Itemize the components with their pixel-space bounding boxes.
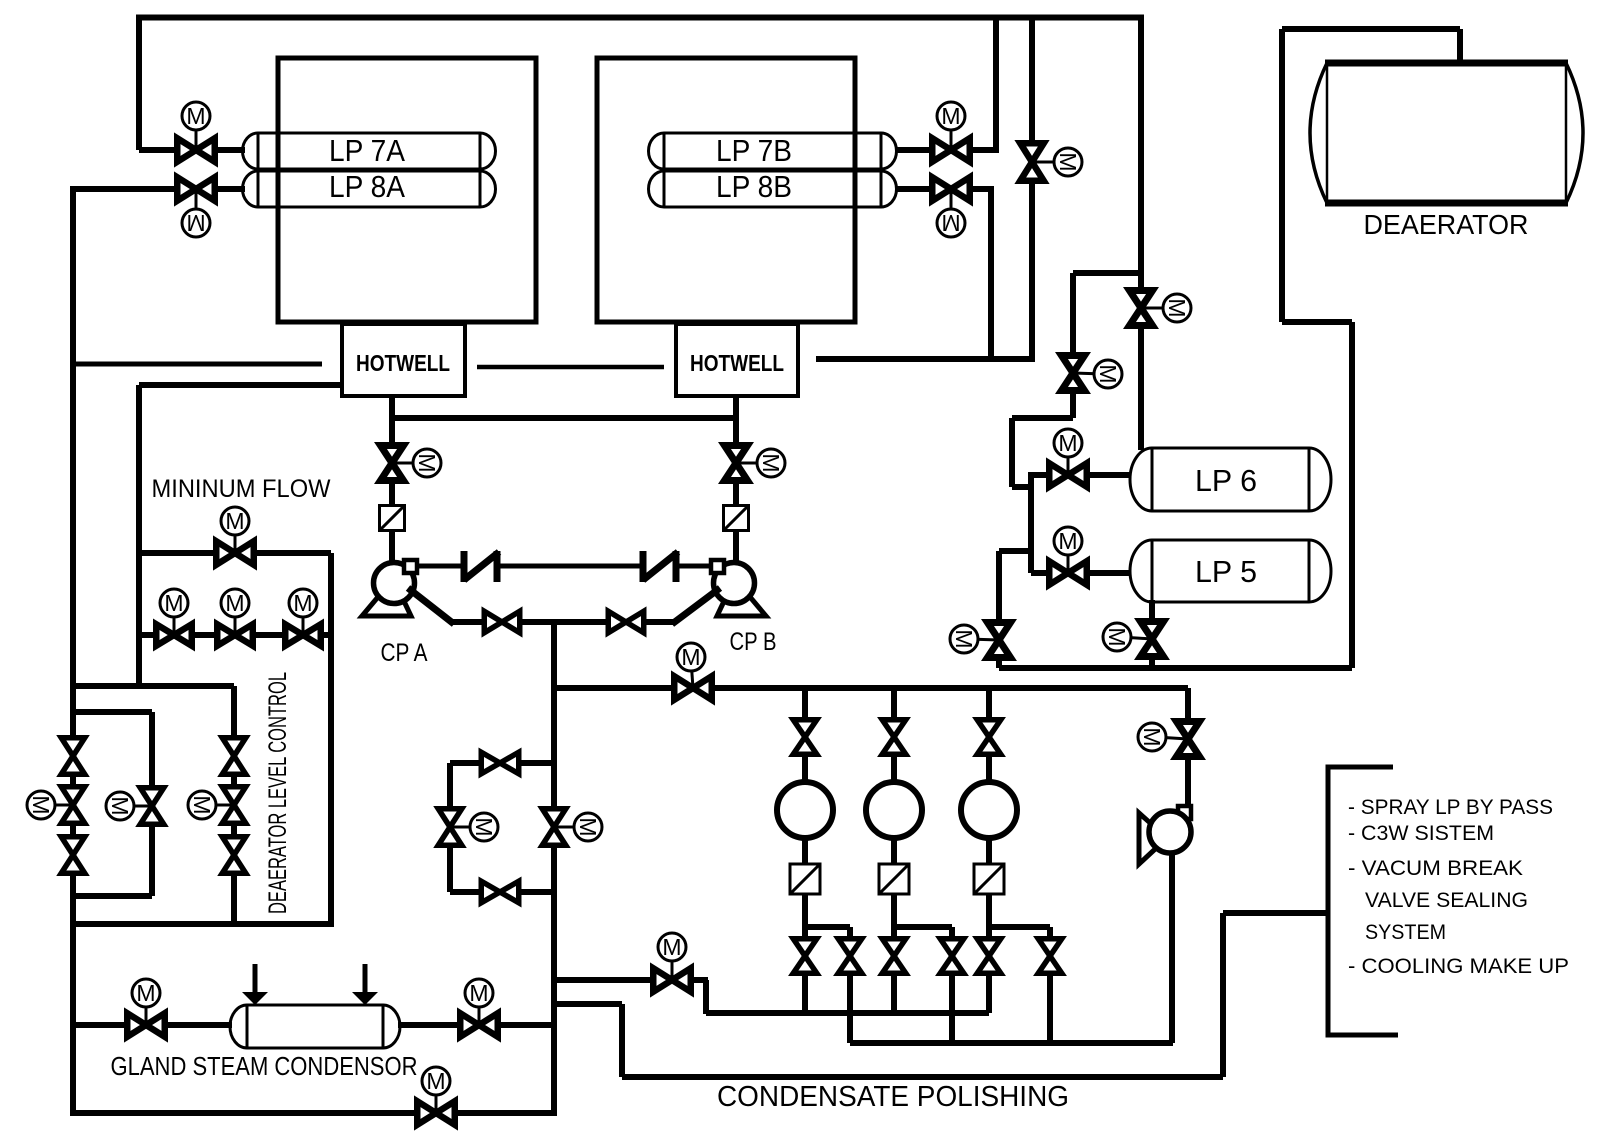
valve stack3 top [222, 738, 246, 775]
vessel LP 8A [242, 171, 495, 207]
svg-text:LP 8B: LP 8B [716, 169, 792, 204]
valve discharge B [608, 611, 644, 633]
wire drop x999 [996, 551, 1002, 668]
valve train 3 outlet left [977, 939, 1001, 974]
wire train 3 pair jog [989, 924, 1050, 930]
condenser B box [597, 58, 855, 322]
wire hotwell B drop [733, 396, 739, 566]
wire LP5 valve left stub [1031, 570, 1048, 576]
deaerator vessel [1310, 63, 1583, 203]
svg-text:M: M [469, 980, 488, 1006]
wire LP5 valve right stub [1088, 570, 1131, 576]
pump CP A discharge notch [404, 560, 417, 573]
svg-text:M: M [1055, 152, 1081, 171]
wire left main downcomer x73 [70, 186, 76, 1116]
svg-text:GLAND STEAM CONDENSOR: GLAND STEAM CONDENSOR [111, 1051, 418, 1081]
wire loop bottom y896 [73, 893, 152, 899]
wire train 3 below strainer [986, 893, 992, 957]
motor M gland outlet valve [478, 993, 481, 1025]
svg-text:M: M [941, 210, 960, 236]
wire left line y364 [73, 362, 322, 367]
pump CP A base [362, 591, 411, 616]
motor M y980 valve [671, 950, 674, 980]
wire train 2 below strainer [891, 893, 897, 957]
wire min flow line y553 [139, 550, 331, 556]
valve stack3 mid [222, 787, 246, 824]
wire deaerator inlet x1460 [1457, 29, 1463, 66]
vessel LP 7B [648, 133, 896, 169]
motor M stack3 [206, 804, 234, 807]
wire top header [136, 15, 1144, 21]
pump CP B body [714, 563, 755, 604]
motor M x1141 valve [1141, 307, 1173, 310]
valve hotwell A drop [381, 446, 404, 481]
wire jog y418 [1012, 415, 1073, 421]
svg-text:LP 7B: LP 7B [716, 133, 792, 168]
svg-text:DEAERATOR LEVEL CONTROL: DEAERATOR LEVEL CONTROL [264, 672, 292, 914]
wire bypass left x450 [447, 763, 453, 892]
wire enclosure jog y322 [1282, 319, 1352, 325]
motor M LP5 drain valve [1121, 637, 1152, 639]
valve booster inlet [1177, 722, 1200, 757]
valve LP8A inlet [177, 177, 215, 201]
vessel LP 8B [648, 171, 896, 207]
svg-text:- C3W SISTEM: - C3W SISTEM [1348, 822, 1494, 845]
filter vessel circle train 1 [777, 782, 833, 838]
valve bottom line [417, 1101, 455, 1125]
strainer train 1 [790, 864, 820, 894]
pump CP A body [374, 563, 415, 604]
wire train 1 right branch drop [847, 927, 853, 957]
wire polishing supply drop x622 [619, 1004, 625, 1077]
valve row y635 #2 [217, 624, 253, 646]
wire train 1 left tail [802, 974, 808, 1016]
valve LP5 inlet [1049, 561, 1087, 585]
svg-text:M: M [471, 817, 497, 836]
wire jog y487 [1012, 484, 1031, 490]
svg-text:M: M [951, 629, 977, 648]
motor M of min flow valve [234, 521, 237, 553]
motor M x1073 valve [1073, 373, 1104, 374]
wire train 2 right branch drop [949, 927, 955, 957]
wire downcomer x1032 from top header [1029, 15, 1035, 358]
svg-text:M: M [186, 103, 205, 129]
wire bottom line y1113 [73, 1110, 554, 1116]
valve on x1032 line [1020, 143, 1044, 181]
wire drain header y668 [999, 665, 1352, 671]
wire downcomer x991 to hotwell B line [988, 189, 994, 358]
svg-text:SYSTEM: SYSTEM [1365, 921, 1446, 944]
wire manifold col3 x234 [231, 686, 237, 927]
valve row y635 #3 [285, 624, 321, 646]
svg-text:HOTWELL: HOTWELL [690, 350, 784, 376]
wire LP7B valve right stub [973, 147, 999, 153]
break symbol 1 on crossover [461, 551, 468, 582]
wire booster drop x1188 [1185, 688, 1191, 718]
filter vessel circle train 3 [961, 782, 1017, 838]
wire gland outlet stub [398, 1022, 459, 1028]
wire left riser to LP7A valve [136, 15, 142, 150]
svg-text:- COOLING MAKE UP: - COOLING MAKE UP [1348, 955, 1569, 978]
valve train 2 outlet right [940, 939, 964, 974]
wire LP6 valve left stub [1031, 472, 1048, 478]
wire train 1 to filter [802, 755, 808, 783]
svg-text:CP A: CP A [381, 639, 428, 667]
wire crossover y566 seg3 [679, 564, 709, 569]
wire triple valve line y635 [139, 632, 331, 638]
wire branch y688 [554, 685, 1188, 691]
motor M bottom valve [435, 1081, 438, 1113]
wire train 2 drop [891, 688, 897, 718]
motor M of LP7A inlet valve [195, 116, 198, 150]
pump CP B suction notch [711, 560, 724, 573]
wire loop col x152 [149, 712, 155, 896]
wire polishing riser x1223 [1220, 913, 1226, 1077]
valve train 2 top [882, 720, 906, 755]
wire train 1 below strainer [802, 893, 808, 957]
svg-text:M: M [1058, 528, 1077, 554]
wire train 1 drop [802, 688, 808, 718]
motor M loop valve [124, 805, 152, 808]
svg-text:M: M [225, 508, 244, 534]
svg-text:MININUM FLOW: MININUM FLOW [152, 475, 331, 503]
condenser A box [278, 58, 536, 322]
valve LP5 drain [1141, 622, 1164, 657]
wire LP8A valve left stub [70, 186, 175, 192]
wire train 1 right tail [847, 974, 853, 1043]
svg-text:M: M [1058, 430, 1077, 456]
gland steam condenser vessel [230, 1005, 400, 1048]
wire x1073 top link [1073, 270, 1141, 276]
wire enclosure riser x1352 [1349, 322, 1355, 668]
wire LP8B valve left stub [897, 186, 929, 192]
valve x999 drain [988, 623, 1011, 658]
svg-text:M: M [189, 795, 215, 814]
wire left riser x139 mid [136, 385, 142, 689]
arrow into gland 2 [363, 964, 368, 994]
wire gland line left [73, 1022, 126, 1028]
wire crossover y566 seg1 [418, 564, 461, 569]
wire LP7A valve left stub [139, 147, 175, 153]
svg-text:M: M [1095, 364, 1121, 383]
valve LP8B outlet [932, 177, 970, 201]
annotation bracket [1328, 767, 1398, 1035]
wire CP A discharge diagonal [408, 588, 454, 624]
valve y980 [653, 968, 691, 992]
valve gland inlet [127, 1013, 165, 1037]
hotwell B box [676, 324, 798, 396]
svg-text:M: M [1164, 298, 1190, 317]
wire train 3 right tail [1047, 974, 1053, 1043]
wire LP6 valve right stub [1088, 472, 1131, 478]
svg-text:M: M [681, 644, 700, 670]
svg-text:CP B: CP B [730, 628, 777, 656]
wire hotwell B side line y358 [816, 356, 1035, 362]
vessel LP 7A [242, 133, 495, 169]
valve x1141 [1130, 291, 1153, 326]
valve row y635 #1 [156, 624, 192, 646]
motor M bypass left valve [450, 826, 480, 829]
wire enclosure riser x1282 [1279, 29, 1285, 322]
wire train 2 below filter [891, 838, 897, 866]
wire manifold top y686 [73, 683, 234, 689]
valve branch y688 [674, 676, 712, 700]
svg-text:M: M [575, 817, 601, 836]
wire between hotwells [477, 365, 664, 370]
svg-text:M: M [293, 590, 312, 616]
wire min flow right drop x331 [328, 553, 334, 927]
wire gland inlet stub [166, 1022, 232, 1028]
svg-text:M: M [941, 103, 960, 129]
valve stack1 bottom [61, 837, 85, 874]
valve discharge A [484, 611, 520, 633]
wire manifold bottom y924 [70, 921, 331, 927]
wire loop top y712 [73, 709, 152, 715]
valve train 1 top [793, 720, 817, 755]
wire train 3 drop [986, 688, 992, 718]
valve LP7B outlet [932, 138, 970, 162]
svg-text:LP 6: LP 6 [1195, 463, 1257, 498]
pump CP B base [717, 591, 766, 616]
wire LP8A valve right stub [217, 186, 245, 192]
svg-text:LP 5: LP 5 [1195, 554, 1257, 589]
arrow into gland 1 [253, 964, 258, 994]
motor M of hotwell B drop valve [736, 462, 768, 465]
wire CP B discharge diagonal [672, 588, 720, 624]
motor M stack1 [45, 804, 73, 807]
valve train 1 outlet right [838, 939, 862, 974]
wire train 2 to filter [891, 755, 897, 783]
wire left line y385 [139, 382, 342, 388]
motor M of hotwell A drop valve [392, 462, 424, 465]
svg-text:DEAERATOR: DEAERATOR [1364, 209, 1529, 240]
wire bypass top y763 [450, 760, 554, 766]
wire return riser x706 [703, 980, 709, 1014]
wire train 2 pair jog [894, 924, 952, 930]
wire LP5 drain drop [1149, 600, 1155, 668]
valve LP6 inlet [1049, 463, 1087, 487]
valve stack1 mid [61, 787, 85, 824]
wire train 2 right tail [949, 974, 955, 1043]
wire crossover y566 seg2 [500, 564, 641, 569]
valve LP7A inlet [177, 138, 215, 162]
wire deaerator feed riser x1141 [1138, 15, 1144, 450]
wire main downcomer x554 [551, 622, 557, 1116]
svg-text:VALVE SEALING: VALVE SEALING [1365, 889, 1528, 912]
svg-text:M: M [136, 980, 155, 1006]
motor M of x1032 valve [1032, 161, 1066, 164]
svg-text:M: M [758, 453, 784, 472]
strainer hotwell B [724, 506, 749, 531]
wire train 3 right branch drop [1047, 927, 1053, 957]
svg-text:M: M [225, 590, 244, 616]
motor M row valve 2 [234, 604, 237, 635]
motor M booster inlet valve [1156, 737, 1188, 739]
valve loop x152 [140, 788, 164, 825]
valve x1073 [1062, 356, 1085, 391]
wire train 1 below filter [802, 838, 808, 866]
wire train 3 to filter [986, 755, 992, 783]
svg-text:LP 7A: LP 7A [329, 133, 405, 168]
motor M of LP7B outlet valve [950, 116, 953, 150]
motor M main line valve [554, 826, 584, 829]
wire hotwell A drop [389, 396, 395, 566]
valve min flow [216, 541, 254, 565]
label DEAERATOR LEVEL CONTROL [264, 672, 292, 914]
valve train 2 outlet left [882, 939, 906, 974]
wire bypass bottom y892 [450, 889, 554, 895]
svg-text:CONDENSATE POLISHING: CONDENSATE POLISHING [717, 1081, 1069, 1113]
motor M x999 valve [968, 639, 999, 640]
booster pump notch [1178, 806, 1191, 819]
booster pump horn [1139, 813, 1167, 864]
wire return line y1013 [706, 1010, 989, 1016]
valve train 3 top [977, 720, 1001, 755]
valve bypass left [438, 809, 462, 846]
motor M LP6 valve [1067, 446, 1070, 475]
valve hotwell B drop [725, 446, 748, 481]
wire jog y551 [999, 548, 1031, 554]
valve train 3 outlet right [1038, 939, 1062, 974]
wire y980 stub [554, 977, 708, 983]
svg-text:- VACUM BREAK: - VACUM BREAK [1348, 857, 1523, 880]
wire train 3 left tail [986, 974, 992, 1013]
valve bypass bottom [481, 881, 519, 903]
strainer hotwell A [380, 506, 405, 531]
wire condensate polishing header y1077 [622, 1074, 1223, 1080]
motor M row valve 3 [302, 604, 305, 635]
motor M of LP8B outlet valve (inverted) [950, 189, 953, 223]
svg-text:M: M [164, 590, 183, 616]
wire enclosure top y29 [1282, 26, 1460, 32]
wire discharge header y622 [450, 619, 676, 625]
wire polishing supply jog [554, 1001, 622, 1007]
wire LP8B valve right stub [973, 186, 994, 192]
wire gland outlet to main [499, 1022, 554, 1028]
break symbol 2 on crossover [640, 551, 647, 582]
svg-text:M: M [1104, 627, 1130, 646]
svg-text:M: M [426, 1068, 445, 1094]
wire booster inlet tail [1185, 760, 1191, 810]
svg-text:HOTWELL: HOTWELL [356, 350, 450, 376]
motor M gland inlet valve [145, 993, 148, 1025]
strainer train 3 [974, 864, 1004, 894]
wire return line y1043 [850, 1040, 1173, 1046]
valve bypass top [481, 752, 519, 774]
svg-text:M: M [28, 795, 54, 814]
wire riser x996 to top header [993, 15, 999, 150]
wire train 2 left tail [891, 974, 897, 1016]
strainer train 2 [879, 864, 909, 894]
motor M row valve 1 [173, 604, 176, 635]
wire x1073 drop [1070, 273, 1076, 418]
vessel LP 6 [1130, 448, 1331, 511]
wire train 1 pair jog [805, 924, 850, 930]
wire train 3 below filter [986, 838, 992, 866]
motor M of LP8A inlet valve (inverted) [195, 189, 198, 223]
valve gland outlet [460, 1013, 498, 1037]
filter vessel circle train 2 [866, 782, 922, 838]
valve stack3 bottom [222, 837, 246, 874]
hotwell A box [342, 324, 465, 396]
wire polishing top y913 [1223, 910, 1328, 916]
svg-text:M: M [662, 934, 681, 960]
motor M branch valve [691, 660, 693, 688]
wire header x1031 [1028, 472, 1034, 573]
svg-text:M: M [186, 210, 205, 236]
svg-text:M: M [1139, 727, 1165, 746]
valve train 1 outlet left [793, 939, 817, 974]
valve stack1 top [61, 738, 85, 775]
vessel LP 5 [1130, 540, 1331, 602]
wire drop x1012 [1009, 418, 1015, 487]
wire crossover y418 [392, 415, 736, 421]
svg-text:M: M [414, 453, 440, 472]
booster pump body [1149, 811, 1191, 853]
wire LP7B valve left stub [897, 147, 929, 153]
wire booster outlet [1169, 853, 1175, 1043]
svg-text:- SPRAY LP BY PASS: - SPRAY LP BY PASS [1348, 796, 1553, 819]
wire LP7A valve right stub [217, 147, 245, 153]
valve main line x554 [542, 809, 566, 846]
motor M LP5 valve [1067, 544, 1070, 573]
svg-text:LP 8A: LP 8A [329, 169, 405, 204]
svg-text:M: M [107, 796, 133, 815]
